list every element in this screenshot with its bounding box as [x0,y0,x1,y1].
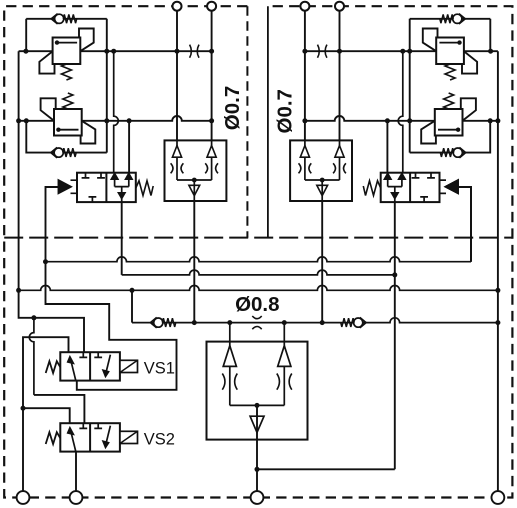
svg-text:Ø0.7: Ø0.7 [221,86,244,130]
svg-text:VS1: VS1 [144,360,175,378]
svg-text:Ø0.7: Ø0.7 [274,89,297,133]
svg-text:Ø0.8: Ø0.8 [235,293,279,316]
svg-text:VS2: VS2 [144,431,175,449]
